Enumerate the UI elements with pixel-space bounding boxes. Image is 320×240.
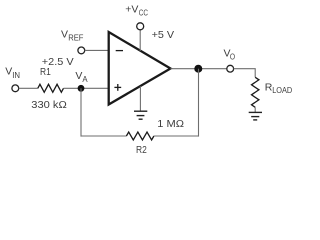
node output junction [194,65,202,73]
node VA [78,85,85,92]
svg-text:V: V [5,66,12,78]
op-amp U1 [109,32,171,105]
label VREF [61,28,84,42]
svg-text:330 kΩ: 330 kΩ [31,99,67,111]
label R2 [136,144,147,156]
wire [234,69,256,78]
supply +VCC pin [137,23,144,51]
wire (bottom right) [154,135,199,137]
terminal VIN [12,85,19,92]
svg-text:R1: R1 [40,66,51,78]
svg-text:+V: +V [125,3,138,15]
label +VCC [125,3,148,17]
svg-text:O: O [230,52,235,61]
wire (output) [171,68,227,70]
wire (feedback up) [198,69,200,137]
label 1 MOhm [157,118,184,130]
wire [64,87,109,89]
wire (bottom left) [81,135,127,137]
label VO [224,47,236,61]
label 330 kOhm [31,99,67,111]
label RLOAD [265,82,293,96]
label VIN [5,66,20,80]
label +2.5 V [42,56,74,68]
label R1 [40,66,51,78]
ground (op-amp) [134,86,147,119]
resistor RLOAD [252,77,259,107]
terminal VO [227,65,234,72]
wire [19,87,38,89]
resistor R2 [126,132,154,140]
resistor R1 [38,84,64,92]
svg-text:REF: REF [68,34,84,43]
label VA [75,70,88,84]
terminal VREF [78,47,85,54]
svg-text:V: V [75,70,82,82]
wire (VA down) [80,88,82,136]
svg-text:1 MΩ: 1 MΩ [157,118,184,130]
wire [85,49,109,51]
svg-text:+5 V: +5 V [152,29,175,41]
ground (RLOAD) [249,112,262,120]
svg-text:+2.5 V: +2.5 V [42,56,74,68]
svg-text:LOAD: LOAD [272,86,292,95]
svg-text:V: V [61,28,68,40]
svg-text:R2: R2 [136,144,147,156]
wire [254,107,256,112]
svg-text:IN: IN [12,71,20,80]
label +5 V [152,29,175,41]
svg-text:A: A [82,75,88,84]
svg-text:CC: CC [139,8,148,17]
